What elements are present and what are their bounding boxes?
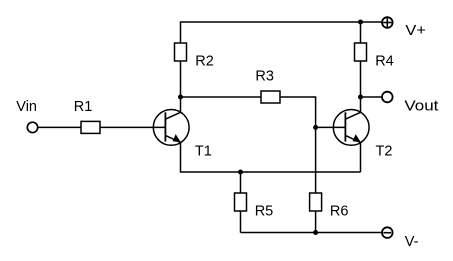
svg-text:R1: R1 [74,99,93,115]
svg-text:R2: R2 [195,53,214,69]
svg-text:T2: T2 [376,144,393,160]
svg-text:V+: V+ [405,23,426,39]
svg-text:R4: R4 [375,53,394,69]
svg-text:T1: T1 [195,144,212,160]
svg-text:Vout: Vout [404,99,438,115]
svg-text:R3: R3 [255,68,274,84]
svg-text:V-: V- [405,234,419,250]
svg-text:R6: R6 [330,203,349,219]
svg-text:R5: R5 [255,203,274,219]
svg-text:Vin: Vin [16,99,37,115]
